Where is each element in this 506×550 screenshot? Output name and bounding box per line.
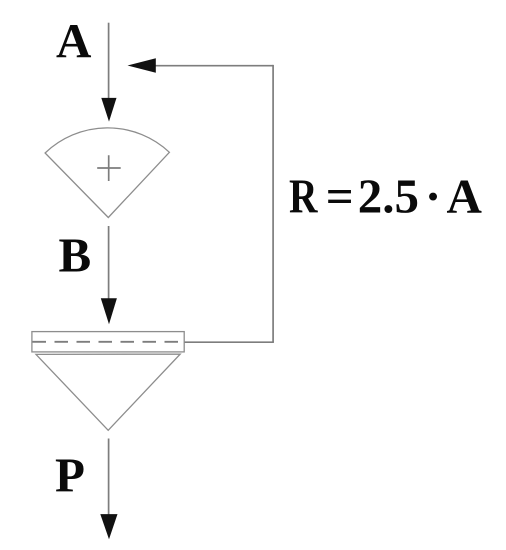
mixer plus sign xyxy=(97,155,121,181)
separator membrane dashed line xyxy=(33,341,185,343)
arrowhead recycle into feed xyxy=(128,58,156,73)
wire recycle vertical xyxy=(272,65,274,342)
svg-text:A: A xyxy=(447,169,483,224)
svg-text:R: R xyxy=(289,169,318,224)
wire recycle horizontal bottom xyxy=(184,341,274,343)
recycle equation label R = 2.5 * A xyxy=(289,169,483,224)
wire product P vertical xyxy=(108,439,110,517)
arrowhead feed A into mixer xyxy=(101,98,116,122)
mixer U1 sector body xyxy=(45,128,169,218)
wire feed A vertical line xyxy=(108,23,110,100)
wire recycle horizontal top xyxy=(154,65,273,67)
separator V1 top rectangle xyxy=(32,332,184,352)
svg-text:=: = xyxy=(326,169,354,224)
separator V1 cone body xyxy=(36,354,180,430)
arrowhead stream B into separator xyxy=(101,298,117,324)
svg-text:B: B xyxy=(59,228,92,283)
arrowhead product P out xyxy=(100,514,117,539)
svg-text:·: · xyxy=(425,169,441,224)
svg-text:A: A xyxy=(56,13,92,68)
svg-text:2.5: 2.5 xyxy=(358,169,419,224)
svg-text:P: P xyxy=(55,448,85,503)
wire stream B vertical xyxy=(108,226,110,302)
